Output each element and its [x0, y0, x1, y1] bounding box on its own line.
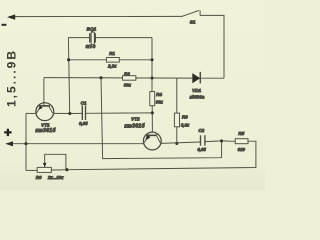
switch S1 blade: [182, 10, 200, 16]
plus sign: [4, 129, 11, 136]
transistor VT1: [36, 103, 54, 121]
diode VD1: [192, 73, 200, 83]
wire: BQ1 branch top left: [68, 37, 89, 39]
wire: R3 bottom to VT2 collector line: [176, 127, 178, 144]
wire: VT2 collector to C2: [161, 142, 200, 143]
capacitor C1: [70, 112, 82, 114]
svg-text:кт361б: кт361б: [124, 123, 145, 130]
resistor R4: [150, 92, 155, 106]
wire: R4 bottom to VT2 base: [151, 106, 153, 132]
svg-text:VT2: VT2: [131, 116, 140, 121]
svg-text:C2: C2: [198, 128, 204, 133]
wire: R1 right: [119, 59, 152, 61]
wire: S1 to top-right corner and down to diode: [200, 15, 224, 78]
wire: plus branch vertical (VT1 emitter / R6): [25, 113, 27, 170]
wire: BQ1 to supply node: [95, 37, 152, 39]
svg-text:S1: S1: [190, 20, 196, 25]
wire: C2 node to R5: [222, 140, 236, 142]
svg-text:BQ1: BQ1: [87, 27, 97, 32]
svg-text:R1: R1: [109, 51, 115, 56]
wire: R1 left: [68, 59, 106, 61]
wire: supply node vertical (BQ1 right / R1 right / R4): [151, 38, 153, 92]
node dot feedback tap: [99, 76, 102, 79]
svg-text:30к: 30к: [124, 82, 132, 87]
minus sign: [2, 24, 7, 26]
wire: R2 right to supply node: [136, 77, 152, 79]
svg-text:30к: 30к: [156, 99, 164, 104]
switch S1 fixed contact tick: [199, 10, 201, 15]
wire: negative supply rail: [9, 15, 183, 17]
node dot C2 right / R5 left / feedback: [220, 139, 223, 142]
wire: to R6 left: [26, 169, 37, 171]
capacitor C2: [200, 135, 202, 145]
node dot R3 bottom: [175, 142, 178, 145]
svg-text:кт361б: кт361б: [35, 127, 56, 134]
wire: VD1 cathode to corner: [200, 77, 224, 79]
wire: VT1 base rail to R2: [44, 77, 123, 79]
svg-text:VT1: VT1: [41, 122, 50, 127]
svg-text:С1: С1: [81, 100, 87, 105]
node dot C1 right / VT2 base: [151, 111, 154, 114]
svg-text:910: 910: [238, 147, 246, 152]
svg-text:R3: R3: [182, 114, 188, 119]
transistor VT2: [143, 132, 161, 150]
svg-text:0,05: 0,05: [79, 121, 88, 126]
svg-text:ЗП-3: ЗП-3: [85, 44, 95, 49]
wire: VT1 base vertical: [43, 78, 45, 106]
terminal arrow (minus): [7, 14, 15, 19]
svg-text:кд503а: кд503а: [190, 95, 205, 100]
svg-text:R4: R4: [156, 92, 162, 97]
wire: plus rail to VT2 emitter: [11, 143, 144, 145]
node dot VT1 collector / C1 left: [68, 112, 71, 115]
node dot R6 / bottom rail: [65, 168, 68, 171]
wire: VD1 anode to supply node: [152, 77, 192, 79]
wire: BQ1/R1 left vertical: [68, 38, 69, 114]
wire: VT1 collector to C1: [53, 112, 70, 114]
terminal arrow (plus): [5, 141, 13, 146]
svg-text:R6: R6: [36, 175, 42, 180]
wire: feedback line from base node down and right to C2/R5 node: [101, 78, 222, 159]
node dot R1 right: [150, 58, 153, 61]
svg-text:R2: R2: [124, 71, 130, 76]
wire: R3 top branch: [176, 78, 178, 113]
svg-text:R5: R5: [238, 131, 244, 136]
node dot R1 left: [67, 58, 70, 61]
svg-text:2к...10к: 2к...10к: [47, 175, 64, 180]
resistor R3: [174, 113, 179, 127]
node dot R2 right / VD1 anode: [150, 76, 153, 79]
piezo BQ1: [89, 33, 91, 42]
resistor R2: [123, 76, 136, 81]
node dot plus rail: [24, 142, 27, 145]
svg-text:VD1: VD1: [192, 88, 201, 93]
resistor R1: [106, 58, 119, 63]
wire: bottom rail to R5 right: [67, 141, 256, 170]
wire: VT1 emitter to plus branch: [26, 112, 37, 114]
svg-text:3,6к: 3,6к: [181, 123, 190, 128]
wire: R6 right to node: [51, 169, 67, 171]
svg-text:0,05: 0,05: [197, 147, 206, 152]
R6 wiper: [45, 154, 66, 169]
resistor R6 (variable): [37, 167, 51, 172]
svg-text:2,2к: 2,2к: [107, 64, 117, 69]
svg-text:1,5...9В: 1,5...9В: [4, 49, 18, 107]
resistor R5: [235, 139, 248, 144]
